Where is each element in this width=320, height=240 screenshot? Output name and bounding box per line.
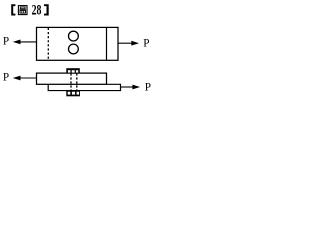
svg-text:28: 28: [32, 2, 42, 18]
side view: left arrow (pointing left): [13, 76, 37, 81]
figure label bracket right 】: [44, 4, 49, 15]
top view: plate outline rectangle: [37, 27, 119, 60]
svg-text:P: P: [143, 38, 149, 50]
bolt head (hatched): [66, 68, 80, 73]
side view: lower plate: [48, 84, 120, 90]
svg-text:P: P: [3, 35, 9, 47]
svg-text:P: P: [145, 81, 151, 93]
top view: left arrow (pointing left): [13, 40, 37, 45]
svg-text:P: P: [3, 71, 9, 83]
bolt shank hidden lines (dashed): [71, 73, 77, 90]
side view: right arrow (pointing right): [121, 85, 141, 90]
side view: upper plate: [37, 73, 107, 84]
top view: visible end of upper plate (solid line): [106, 28, 108, 60]
top view: right arrow (pointing right): [118, 41, 139, 46]
top view: hidden edge of lower plate (dashed line): [47, 28, 49, 60]
figure label character 圖: [18, 6, 27, 15]
top view: rivet hole 2 (lower circle): [69, 44, 79, 54]
figure label bracket left 【: [11, 4, 15, 15]
nut (hatched): [66, 91, 80, 97]
top view: rivet hole 1 (upper circle): [69, 31, 79, 41]
